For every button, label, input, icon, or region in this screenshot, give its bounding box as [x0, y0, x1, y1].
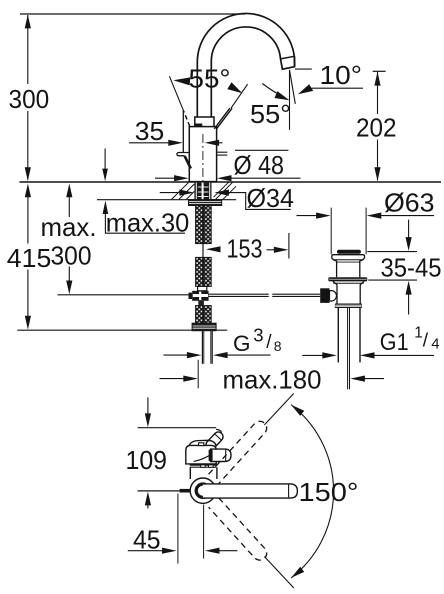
svg-text:max.180: max.180: [223, 365, 322, 395]
faucet body: [189, 127, 216, 182]
top view spout bar: [203, 484, 298, 498]
dimension G3/8 right: [213, 352, 228, 358]
top view lever grip: [210, 449, 231, 461]
dimension 415 line: [25, 184, 31, 198]
max300 bottom reference line: [58, 294, 189, 296]
faucet side pin: [217, 151, 227, 153]
max.30 upper arrow: [102, 169, 108, 182]
svg-text:/: /: [423, 331, 429, 352]
svg-text:300: 300: [9, 84, 50, 114]
hose break rod: [202, 244, 204, 258]
drain nut band: [335, 304, 362, 309]
pull rod knob: [185, 156, 191, 169]
label 153 arrow: [206, 246, 221, 252]
dimension 35 right arrow: [205, 140, 220, 146]
countertop hatching left: [172, 182, 195, 199]
dimension d63 right arrow: [367, 213, 382, 219]
svg-text:G: G: [233, 331, 251, 356]
top reference line (spout height datum): [20, 13, 246, 15]
55 deg (lever) right arrow: [227, 82, 242, 93]
drain seal band: [328, 277, 367, 281]
max.30 leader: [105, 214, 185, 234]
svg-text:Ø34: Ø34: [247, 183, 295, 213]
150 deg arc bottom arrow: [291, 567, 304, 578]
top view: pivot reference line: [138, 490, 180, 492]
109 dimension upper arrow: [147, 397, 149, 414]
dimension 35 left arrow: [168, 140, 183, 146]
35-45 lower arrow: [406, 281, 412, 295]
max.30 lower arrow: [103, 201, 109, 215]
flexible hose lower segment: [196, 306, 212, 324]
dimension 35 line right: [219, 142, 223, 144]
153 extension line (stream axis): [288, 233, 290, 259]
35-45 upper arrow: [408, 220, 410, 238]
55 deg (stream) arrow: [274, 91, 289, 100]
dimension d63 left arrow: [297, 215, 318, 217]
d34 leader: [229, 193, 291, 210]
counterweight stub: [180, 489, 191, 493]
fitting lower stem: [198, 301, 204, 306]
dimension 300 top arrow: [25, 15, 31, 29]
dimension d34 left arrow: [179, 190, 194, 196]
55 deg (lever) left arrow: [173, 77, 190, 85]
svg-text:max.: max.: [41, 212, 97, 242]
150 deg arc: [291, 405, 333, 578]
bulk top notch: [199, 443, 204, 446]
lever ghost extension line: [169, 76, 183, 111]
dimension G1 1/4 right: [360, 352, 375, 358]
aerator block: [281, 56, 295, 69]
dimension 202 bottom arrow: [374, 167, 380, 181]
drain extension lines: [330, 208, 332, 255]
countertop underside line: [97, 199, 236, 201]
spout end seam: [281, 56, 295, 59]
dimension 300 bottom arrow: [25, 167, 31, 181]
10 deg leader arrow: [298, 84, 313, 94]
35-45 lower reference line: [368, 279, 417, 281]
35-45 upper reference line: [367, 251, 417, 253]
max180 left arrow: [160, 378, 185, 380]
body centerline: [202, 134, 204, 203]
dimension 45 left arrow: [128, 550, 163, 552]
top view body dome arch: [189, 440, 217, 447]
dimension d48 left arrow: [174, 175, 189, 181]
153 right arrow: [267, 249, 276, 251]
pop-up horizontal rod: [209, 293, 269, 295]
415 bottom reference line: [17, 329, 227, 331]
svg-text:35-45: 35-45: [381, 253, 442, 283]
svg-text:G1: G1: [380, 329, 409, 356]
svg-text:45: 45: [133, 525, 161, 555]
top view seam notches: [201, 465, 206, 467]
reference line hook: [216, 429, 221, 432]
max180 right arrow: [350, 376, 365, 382]
dimension 202 line: [377, 72, 379, 114]
top view lever bulk: [186, 445, 216, 464]
pop-up pull rod: [182, 111, 184, 153]
svg-text:300: 300: [51, 241, 92, 271]
top view: 109 upper reference line: [138, 427, 217, 429]
svg-text:35: 35: [135, 116, 165, 146]
dimension 300 vertical line: [27, 15, 29, 84]
collar dark band: [195, 124, 202, 127]
55 deg (stream) arc: [262, 84, 281, 97]
top view body sides: [189, 467, 191, 479]
threaded shank through deck: [194, 183, 211, 200]
48 leader line upper: [235, 149, 288, 151]
connection tailpipe: [201, 331, 203, 364]
flexible hose middle segment: [196, 257, 212, 286]
top view bulk inner arc: [194, 453, 215, 462]
svg-text:max.30: max.30: [106, 207, 190, 237]
svg-text:153: 153: [227, 233, 263, 263]
150 deg angle leg lower: [264, 557, 293, 588]
lever extension line: [231, 84, 248, 108]
countertop hatching right: [214, 182, 237, 199]
dimension 202 top tick: [373, 70, 386, 72]
drain flange seams: [334, 259, 363, 261]
svg-text:3: 3: [253, 325, 263, 346]
hose connector block: [198, 286, 207, 290]
150 deg arc top arrow: [291, 405, 304, 416]
aerator level reference line: [295, 68, 312, 70]
svg-text:55°: 55°: [250, 99, 291, 129]
dimension 45 right extension: [203, 505, 205, 559]
dimension G3/8 left: [164, 354, 188, 356]
dimension d34 right arrow: [214, 190, 229, 196]
109 dimension lower arrow: [145, 492, 151, 506]
drain flange top plate: [332, 255, 365, 259]
dimension 202 top arrow: [374, 72, 380, 86]
150 deg angle leg upper: [264, 394, 293, 425]
pivot dark ring: [196, 484, 209, 497]
svg-text:109: 109: [126, 445, 168, 475]
svg-text:1: 1: [414, 325, 423, 342]
svg-text:415: 415: [7, 243, 52, 273]
swivel dashed spout upper: [209, 418, 270, 483]
svg-text:150°: 150°: [299, 477, 359, 507]
pop-up rod cross fitting: [192, 291, 208, 301]
flexible hose upper segment: [196, 205, 212, 243]
dimension 45 right arrow: [205, 548, 220, 554]
pull rod hook: [177, 153, 189, 156]
top view lever knob (raised end): [204, 430, 225, 451]
svg-text:8: 8: [274, 338, 282, 354]
dimension 35 line left: [129, 142, 169, 144]
drain body: [333, 282, 363, 284]
max180 left extension line: [197, 360, 199, 389]
dimension max300 line: [66, 184, 72, 198]
svg-text:Ø 48: Ø 48: [234, 150, 285, 180]
drain tailpipe: [337, 308, 339, 362]
svg-text:10°: 10°: [320, 60, 363, 90]
drain lever black block: [320, 288, 329, 303]
drain plug cap: [337, 250, 361, 254]
10 deg leader line: [312, 87, 364, 89]
countertop deck line: [20, 181, 442, 183]
water stream 10 degree line: [290, 70, 296, 104]
lever solid position: [214, 108, 230, 129]
spout inner contour: [211, 27, 280, 117]
dimension 45 left extension: [177, 494, 179, 564]
lever ghost position dashes: [184, 111, 190, 126]
top view body seam lines: [190, 464, 217, 466]
dimension G1 1/4 left: [302, 354, 322, 356]
svg-text:Ø63: Ø63: [384, 188, 435, 218]
water stream vertical reference: [289, 70, 291, 130]
svg-text:202: 202: [356, 113, 397, 143]
pivot outer circle: [190, 478, 215, 503]
mounting nut below deck: [189, 200, 222, 206]
swivel dashed spout lower: [209, 498, 270, 563]
svg-text:55°: 55°: [189, 64, 231, 94]
svg-text:4: 4: [431, 335, 439, 352]
spout outer contour: [197, 13, 294, 117]
svg-text:/: /: [266, 332, 272, 353]
hose end flange: [192, 323, 216, 330]
dimension d48 right arrow with leader: [217, 175, 232, 181]
drain flange shoulder: [332, 258, 337, 277]
drain lever housing: [330, 291, 337, 301]
riser collar: [195, 117, 214, 127]
